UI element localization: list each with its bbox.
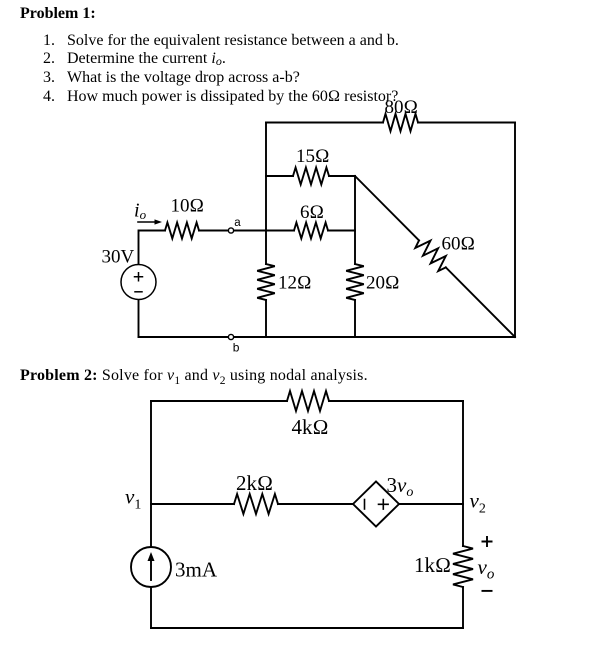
svg-text:1kΩ: 1kΩ [414, 553, 451, 577]
plus sign inside diamond [379, 500, 389, 510]
wire: mid vertical x=355 lower [354, 300, 356, 337]
wire: circuit1 top wire left segment [266, 122, 383, 124]
svg-text:b: b [233, 341, 240, 355]
svg-text:4kΩ: 4kΩ [292, 415, 329, 439]
wire: a-row right stub to x=355 [328, 230, 355, 232]
wire: bottom wire left of node b [139, 336, 229, 338]
current source IS 3mA circle [131, 547, 171, 587]
minus bar inside diamond [364, 500, 366, 510]
wire: circuit2 top wire right segment [329, 400, 463, 402]
svg-text:v1: v1 [125, 485, 141, 513]
minus sign inside 30V source [135, 291, 142, 293]
resistor R 60ohm on diagonal [415, 240, 446, 271]
voltage source VS 30V circle [121, 265, 156, 300]
svg-text:80Ω: 80Ω [385, 97, 419, 118]
resistor R 80ohm [383, 114, 418, 131]
wire: source bottom stub [138, 300, 140, 338]
resistor R 12ohm [257, 264, 275, 300]
wire: left mid vertical lower [265, 300, 267, 337]
wire: bottom wire right of node b [234, 336, 515, 338]
svg-text:io: io [134, 200, 147, 223]
resistor R 10ohm [165, 223, 199, 239]
node a open circle [228, 228, 233, 233]
list item 1 [43, 33, 55, 49]
wire: 15ohm row right stub [329, 175, 355, 177]
wire: circuit2 right vertical lower [462, 587, 464, 628]
svg-text:20Ω: 20Ω [366, 273, 400, 294]
arrowhead of 3mA source arrow [148, 552, 155, 561]
node b open circle [228, 334, 233, 339]
svg-text:30V: 30V [102, 247, 135, 268]
wire: mid vertical x=355 upper [354, 176, 356, 264]
list item 4 [43, 89, 55, 105]
dependent source 3vo diamond [353, 482, 399, 527]
resistor R 1kohm [453, 546, 473, 587]
svg-text:2kΩ: 2kΩ [236, 471, 273, 495]
svg-text:3mA: 3mA [175, 558, 218, 582]
plus sign inside 30V source [135, 273, 143, 281]
svg-text:12Ω: 12Ω [278, 273, 312, 294]
wire: left mid vertical upper (node column x=266) [265, 123, 267, 265]
svg-text:vo: vo [478, 555, 495, 583]
current arrow io [138, 221, 156, 223]
wire: source top stub and a-row left [139, 231, 166, 265]
wire: circuit2 bottom wire [151, 627, 463, 629]
Problem 2 heading [20, 368, 368, 388]
wire: middle row diamond to right vertical [399, 503, 463, 505]
svg-text:60Ω: 60Ω [442, 234, 476, 255]
wire: right vertical of circuit1 [514, 123, 516, 338]
wire: a-row between 10ohm and node a [199, 230, 228, 232]
wire: circuit1 top wire right segment [418, 122, 515, 124]
wire: circuit2 right vertical upper [462, 401, 464, 546]
minus sign below vo [482, 590, 493, 592]
wire: 15ohm row left stub [266, 175, 293, 177]
list item 3 [43, 70, 55, 86]
wire: circuit2 top wire left segment [151, 400, 287, 402]
list item 2 [43, 51, 55, 67]
wire: middle row v1 to 2kohm [151, 503, 234, 505]
wire: a-row from node a to 6ohm [234, 230, 294, 232]
wire: middle row 2kohm to diamond [278, 503, 353, 505]
resistor R 6ohm [294, 223, 328, 239]
wire: circuit2 left vertical lower [150, 587, 152, 628]
svg-text:10Ω: 10Ω [171, 196, 205, 217]
svg-text:15Ω: 15Ω [296, 146, 330, 167]
svg-text:3vo: 3vo [387, 473, 414, 500]
plus sign above vo [482, 536, 493, 547]
svg-text:6Ω: 6Ω [300, 202, 324, 223]
wire: diagonal lower segment [446, 267, 515, 337]
wire: diagonal upper segment [355, 176, 419, 240]
resistor R 4kohm [287, 391, 329, 411]
svg-text:a: a [234, 217, 241, 229]
resistor R 20ohm [346, 264, 364, 300]
arrow inside 3mA source [150, 559, 152, 580]
resistor R 2kohm [234, 494, 278, 514]
Problem 1 heading [20, 6, 96, 22]
svg-text:v2: v2 [470, 489, 486, 517]
resistor R 15ohm [293, 168, 329, 185]
wire: circuit2 left vertical upper [150, 401, 152, 547]
arrowhead of io [155, 219, 163, 224]
